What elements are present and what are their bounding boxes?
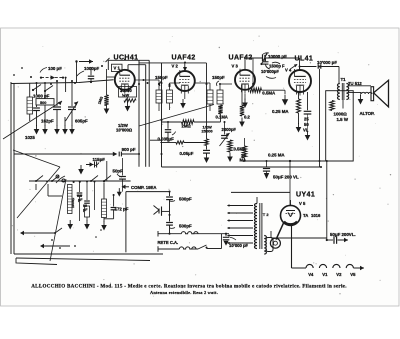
svg-text:900 pF: 900 pF bbox=[122, 147, 136, 152]
svg-text:500pF: 500pF bbox=[179, 197, 192, 202]
svg-text:172 pF: 172 pF bbox=[115, 207, 129, 212]
svg-text:ALTOP.: ALTOP. bbox=[360, 111, 375, 116]
svg-text:T1: T1 bbox=[341, 77, 347, 82]
svg-text:0.035μF: 0.035μF bbox=[158, 136, 175, 141]
svg-text:Antenna estensibile. Resa 2 wa: Antenna estensibile. Resa 2 watt. bbox=[150, 290, 218, 295]
svg-text:500: 500 bbox=[40, 101, 46, 105]
svg-text:500pF: 500pF bbox=[179, 224, 192, 229]
svg-text:150pF: 150pF bbox=[212, 75, 225, 80]
svg-text:10’000 pF: 10’000 pF bbox=[229, 243, 249, 248]
svg-text:10’000 pF: 10’000 pF bbox=[317, 60, 337, 65]
svg-text:V 2: V 2 bbox=[172, 64, 179, 69]
svg-text:V 5: V 5 bbox=[299, 201, 306, 206]
svg-text:ALLOCCHIO BACCHINI - Mod. 115: ALLOCCHIO BACCHINI - Mod. 115 - Medie e … bbox=[31, 284, 347, 290]
svg-text:50pF: 50pF bbox=[113, 169, 124, 174]
svg-text:1025: 1025 bbox=[25, 135, 35, 140]
svg-text:1016: 1016 bbox=[311, 213, 321, 218]
svg-text:10’000pF: 10’000pF bbox=[261, 69, 279, 74]
svg-text:50μF 200VL.: 50μF 200VL. bbox=[330, 232, 356, 237]
svg-text:115pF: 115pF bbox=[93, 157, 106, 162]
svg-text:½W: ½W bbox=[122, 93, 129, 98]
svg-text:50: 50 bbox=[304, 122, 309, 127]
svg-text:10000μ: 10000μ bbox=[71, 198, 75, 208]
svg-text:0.1MA: 0.1MA bbox=[216, 115, 228, 120]
svg-text:V5: V5 bbox=[350, 272, 356, 277]
svg-text:10’000Ω: 10’000Ω bbox=[116, 128, 133, 133]
svg-text:V4: V4 bbox=[308, 272, 314, 277]
svg-text:1.5 W: 1.5 W bbox=[337, 117, 349, 122]
svg-text:UL41: UL41 bbox=[295, 56, 314, 63]
svg-text:COMP. 19EA: COMP. 19EA bbox=[131, 185, 156, 190]
svg-text:1000pF: 1000pF bbox=[84, 66, 99, 71]
svg-text:0.5MA: 0.5MA bbox=[262, 90, 276, 95]
svg-text:0.05μF: 0.05μF bbox=[180, 151, 194, 156]
svg-text:1000Ω: 1000Ω bbox=[334, 111, 348, 116]
svg-text:V 3: V 3 bbox=[232, 64, 239, 69]
svg-text:UY41: UY41 bbox=[296, 192, 315, 199]
svg-text:T 2: T 2 bbox=[263, 212, 270, 217]
svg-text:MA: MA bbox=[240, 158, 247, 163]
svg-text:1000 pF: 1000 pF bbox=[33, 94, 50, 99]
svg-text:TA: TA bbox=[303, 213, 308, 218]
svg-text:605pF: 605pF bbox=[75, 119, 88, 124]
svg-text:2MΩ: 2MΩ bbox=[182, 124, 192, 129]
svg-text:V1: V1 bbox=[322, 272, 328, 277]
svg-text:RETE C.A.: RETE C.A. bbox=[158, 240, 179, 245]
svg-text:50μF 200 VL: 50μF 200 VL bbox=[273, 175, 299, 180]
svg-text:UAF42: UAF42 bbox=[172, 55, 196, 62]
svg-text:1500p F: 1500p F bbox=[269, 64, 285, 69]
svg-text:2000pF: 2000pF bbox=[222, 127, 237, 132]
svg-text:V2: V2 bbox=[336, 272, 342, 277]
svg-text:0.2: 0.2 bbox=[244, 115, 250, 120]
svg-text:162pF: 162pF bbox=[41, 119, 54, 124]
svg-text:10000 pF: 10000 pF bbox=[268, 54, 287, 59]
svg-text:0.25 MA: 0.25 MA bbox=[268, 153, 285, 158]
svg-text:25000: 25000 bbox=[202, 129, 214, 134]
svg-text:100 pF: 100 pF bbox=[48, 66, 62, 71]
svg-text:25: 25 bbox=[304, 117, 309, 122]
svg-text:0.25 MA: 0.25 MA bbox=[272, 109, 289, 114]
